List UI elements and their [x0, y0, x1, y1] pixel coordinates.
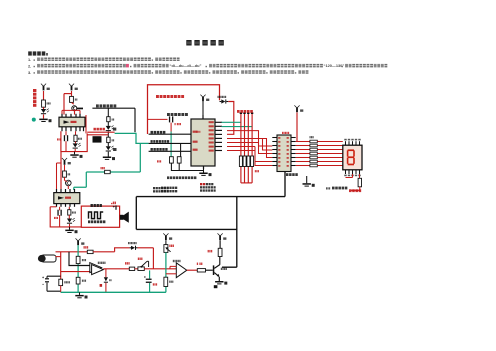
wire	[64, 93, 72, 95]
resistor R18 10K	[218, 248, 222, 256]
IC U4 40110 decoder	[277, 135, 291, 172]
wire green to crystal cap	[170, 132, 172, 157]
value 1N4148	[218, 96, 219, 98]
LED D3 green	[106, 126, 111, 130]
svg-text:3.: 3.	[28, 70, 31, 75]
red caption 发生骤然中断情况	[156, 95, 159, 98]
U1 pins bottom	[61, 127, 62, 131]
wire	[206, 269, 213, 271]
paragraph line 2b	[130, 66, 131, 67]
capacitor C5 474	[57, 210, 58, 216]
value 1K	[112, 139, 113, 141]
wire top red rail	[148, 85, 220, 134]
wire loop under U2	[50, 207, 81, 227]
wire	[107, 131, 109, 137]
op-amp U5B LM358	[176, 263, 187, 278]
power flag +5V (U2)	[62, 158, 67, 161]
svg-text:1.: 1.	[28, 57, 31, 62]
value 47K	[72, 211, 73, 213]
wire	[152, 248, 154, 269]
diode D8	[104, 277, 108, 281]
value 4.7K	[197, 263, 198, 265]
value 47K	[82, 259, 83, 261]
value 1N4148	[128, 242, 129, 244]
power flag +5V (indicator branch)	[41, 84, 46, 87]
power flag +5V (555 #1)	[69, 84, 74, 87]
value 100	[310, 136, 311, 138]
waveform glyph	[89, 212, 104, 219]
value 104	[57, 138, 58, 140]
red caption 报警信号输入	[237, 110, 240, 113]
wire	[74, 152, 76, 155]
label 8050	[221, 268, 222, 270]
LED D6	[67, 219, 72, 223]
wire	[107, 122, 109, 126]
wire op-amp input black	[69, 252, 90, 266]
caption 嘀嘟声	[88, 220, 90, 223]
wire to op2	[144, 268, 176, 270]
value 470	[47, 102, 48, 104]
MCU internal pin names left	[193, 131, 198, 133]
capacitor C2 0.1uF	[169, 116, 170, 122]
wire pin5 to decoder	[227, 139, 272, 151]
wire	[135, 268, 138, 270]
wire MCU gnd pin	[203, 166, 205, 173]
power flag +5V (mic amp)	[76, 238, 81, 241]
value 10K	[208, 250, 209, 252]
red caption 间隔1秒	[94, 128, 96, 131]
wire	[105, 283, 107, 293]
value 10k	[169, 245, 170, 247]
caption row A1	[153, 187, 155, 189]
power flag +5V (Q3)	[218, 233, 223, 236]
IC U1 NE555 (tilt detect)	[59, 117, 85, 127]
wire	[241, 182, 252, 184]
pot wiper	[141, 261, 148, 267]
black caption 红灯绿灯交替闪烁	[96, 104, 99, 107]
wire	[107, 143, 109, 147]
wires to decoder	[255, 143, 272, 166]
wire	[149, 270, 151, 278]
wire	[346, 174, 353, 178]
wire	[170, 123, 172, 132]
wire	[170, 266, 176, 268]
wire	[68, 215, 70, 218]
wire op2 out	[187, 269, 198, 271]
svg-text:2.: 2.	[28, 63, 31, 68]
wire (black top rail)	[92, 107, 135, 109]
label 下降沿触发信号	[151, 140, 153, 143]
value 47K	[82, 280, 83, 282]
wire cap loop	[47, 276, 61, 291]
IC U2 NE555 (tone gen)	[54, 193, 80, 204]
paragraph line 3	[34, 72, 35, 73]
label LM358	[173, 260, 174, 262]
wire	[75, 131, 77, 135]
value 220	[255, 170, 256, 172]
green indicator dot	[32, 118, 36, 122]
label 报警声输出	[151, 131, 153, 134]
resistor R4	[107, 117, 110, 122]
red label +5V	[111, 203, 112, 204]
paragraph line 2a	[34, 66, 35, 67]
value 4148	[109, 279, 110, 281]
paragraph line 2c	[206, 66, 207, 67]
black block	[93, 136, 102, 142]
wire emitter	[218, 277, 220, 281]
wire	[180, 143, 182, 156]
alarm subcircuit box	[81, 206, 119, 227]
U2 pins top	[56, 189, 57, 193]
diode D7 1N4148	[131, 246, 135, 250]
value 1K	[68, 173, 69, 175]
wire green pin2	[222, 126, 253, 128]
value 15K	[101, 167, 102, 169]
wire	[59, 215, 61, 227]
potentiometer RP2 10k	[164, 245, 168, 253]
battery tick	[115, 205, 116, 209]
potentiometer RP1	[138, 267, 144, 271]
ground (mic amp)	[75, 295, 83, 297]
wire	[57, 162, 62, 164]
MCU top pin	[202, 115, 203, 119]
value 40110	[282, 132, 283, 134]
resistor R9 1K	[63, 171, 67, 177]
wire	[72, 102, 74, 104]
wire vcc display	[296, 112, 298, 141]
op IC U1 555 pins top	[61, 114, 62, 118]
wire op1 out	[103, 268, 129, 270]
wire green net to U2	[74, 143, 141, 190]
wire pin3 to decoder	[227, 131, 272, 146]
wire	[65, 141, 67, 151]
decoder U4 pins left	[272, 137, 277, 139]
caption row B2	[200, 186, 202, 188]
wire	[65, 180, 68, 181]
value 30p	[157, 160, 158, 162]
wire	[107, 108, 109, 117]
display DS1 top pins	[345, 141, 347, 145]
wire green to MCU P3	[115, 133, 149, 143]
wire	[50, 206, 56, 208]
MCU right pin stubs	[215, 121, 222, 123]
display segments	[348, 149, 354, 151]
wire bus to decoder	[252, 139, 272, 158]
wire	[306, 176, 308, 183]
wire	[351, 187, 360, 191]
capacitor C4 30p	[177, 157, 181, 163]
wire diode branch	[115, 248, 130, 252]
LED D1 power indicator	[41, 109, 46, 113]
U2 pins bottom	[56, 204, 57, 207]
display bottom pins	[345, 170, 347, 174]
resistor R3 68K	[74, 135, 77, 141]
caption 557	[326, 187, 327, 189]
capacitor C3 30p	[170, 157, 174, 163]
wire	[56, 163, 58, 189]
wire	[60, 252, 62, 279]
wire	[69, 224, 71, 227]
wire	[149, 283, 151, 292]
wire	[107, 152, 109, 157]
wire	[148, 118, 168, 120]
wire	[61, 110, 63, 114]
transistor Q2	[66, 180, 72, 186]
resistor network R7	[296, 141, 310, 143]
resistor R8	[358, 178, 361, 187]
wire	[105, 269, 107, 278]
wire	[63, 94, 65, 115]
paragraph line 2d	[342, 66, 343, 67]
wire black frame to transistor	[136, 171, 285, 267]
wire	[219, 240, 221, 248]
ground (MCU)	[199, 173, 207, 175]
value 10K	[169, 281, 170, 283]
wire	[64, 177, 66, 180]
wire	[59, 207, 61, 211]
MCU internal pin names right	[209, 121, 214, 123]
resistor R16 10K	[164, 277, 168, 286]
resistor R12 10K	[87, 250, 93, 253]
wire	[79, 110, 81, 114]
value 10k	[125, 262, 126, 264]
ground (LED chain)	[103, 157, 111, 159]
ground (U2)	[65, 230, 73, 232]
ground (U1)	[70, 154, 78, 156]
wire collector	[219, 257, 221, 265]
wire	[166, 273, 176, 275]
label 按键开关信号	[151, 148, 153, 151]
wire	[138, 247, 154, 249]
wire	[202, 102, 204, 115]
keypad boxes	[239, 156, 242, 167]
value 4u7	[153, 283, 154, 285]
ground (Q3)	[215, 281, 223, 283]
wire	[79, 292, 81, 295]
caption row C2	[161, 190, 163, 192]
resistor R15	[129, 267, 134, 270]
wire	[74, 110, 76, 115]
U2 label	[58, 196, 64, 199]
paragraph line 1	[34, 59, 35, 60]
capacitor C7 4u7	[146, 279, 152, 280]
wire line1	[149, 133, 191, 135]
resistor R1 (indicator)	[42, 100, 46, 107]
value 68K	[78, 138, 79, 140]
wire	[85, 115, 87, 133]
wire green pin1	[222, 121, 241, 123]
svg-text:“di—du—di—du”: “di—du—di—du”	[170, 63, 202, 68]
red caption 交替闪烁	[349, 189, 352, 192]
wire line2	[149, 142, 191, 144]
resistor R5	[107, 137, 110, 142]
wire	[165, 240, 167, 244]
resistor R17 4.7K	[197, 269, 205, 272]
resistor R6 15K (on green)	[105, 170, 111, 173]
wire	[65, 131, 67, 135]
wire	[93, 251, 115, 253]
heading 设计要求:	[28, 51, 32, 55]
wire	[71, 91, 73, 96]
value 1K	[112, 118, 113, 120]
capacitor C6 electrolytic	[45, 278, 49, 279]
caption row B1	[206, 183, 208, 185]
LED D4 red	[106, 146, 111, 150]
wire green	[165, 252, 167, 292]
diode D5 1N4148	[220, 101, 222, 103]
resistor R14 47K	[76, 277, 80, 284]
caption row B3	[200, 189, 202, 191]
op-amp U5A LM358	[90, 263, 102, 273]
wire	[43, 107, 45, 109]
caption 译码器	[286, 173, 288, 176]
wire	[134, 108, 136, 132]
svg-text:“120—130”: “120—130”	[324, 63, 345, 68]
resistor R10 47K	[68, 210, 71, 215]
ground (indicator)	[39, 119, 47, 121]
power flag +5V (display)	[294, 105, 299, 108]
decoder pins right	[291, 137, 296, 139]
caption row A2	[153, 190, 155, 192]
value 0.1uF	[175, 123, 176, 125]
wire diode to MCU pin	[227, 102, 234, 135]
caption row C1	[161, 187, 163, 189]
caption 小数点	[332, 187, 335, 190]
red bus to keypad	[240, 112, 242, 114]
wire	[64, 165, 66, 171]
power flag +5V (pot2)	[163, 233, 168, 236]
value 474	[54, 217, 55, 219]
wire	[68, 207, 70, 210]
speaker LS1	[120, 215, 124, 220]
power flag +5V (MCU)	[200, 95, 205, 98]
ground (display)	[303, 183, 311, 185]
wire op-amp input red	[61, 271, 90, 273]
wire	[60, 286, 62, 293]
value 1K	[75, 98, 76, 100]
wire drop to U2	[60, 152, 62, 189]
wire line3	[149, 150, 191, 152]
wire	[43, 91, 45, 100]
label LM358	[98, 262, 99, 264]
title 跌倒呼救器	[186, 40, 191, 46]
transistor Q1	[72, 106, 77, 111]
caption 0.5W 喇叭	[91, 204, 93, 207]
wire	[56, 256, 61, 258]
wire	[87, 134, 108, 136]
capacitor C1 103	[64, 135, 65, 141]
value 10K	[84, 246, 85, 248]
black caption 脉冲发生电路	[167, 113, 170, 116]
resistor R13 47K	[76, 256, 80, 263]
microphone MIC1	[41, 255, 56, 262]
IC U3 AT89C2051 MCU	[191, 119, 215, 166]
red vertical label 电源指示灯	[33, 89, 36, 92]
resistor R11 100K	[59, 279, 63, 285]
MCU bottom pin	[203, 166, 204, 169]
wire	[87, 131, 114, 133]
wire pins 6-8	[227, 143, 259, 151]
wire	[75, 142, 77, 144]
wire crystal gnd	[171, 163, 203, 170]
wire	[359, 174, 361, 178]
wire green bottom rail	[61, 291, 166, 293]
wire rail	[56, 251, 88, 253]
pot2 wiper	[166, 248, 170, 252]
resistor R2 1K	[70, 96, 74, 102]
wire loop under U1	[61, 131, 87, 151]
wire	[62, 109, 80, 111]
LED D2	[73, 143, 78, 147]
value 10k pot	[138, 258, 139, 260]
caption 下载电路	[167, 176, 169, 179]
wire	[43, 114, 45, 118]
wire	[74, 149, 76, 152]
value 100K	[64, 281, 65, 283]
wire	[67, 186, 69, 189]
wire green vcc chain	[77, 245, 79, 292]
U1 label	[64, 120, 70, 123]
wire	[69, 227, 71, 230]
display DS1 7-segment	[343, 145, 362, 170]
transistor Q3 8050	[213, 265, 215, 275]
